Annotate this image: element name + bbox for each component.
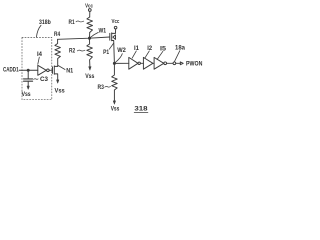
node W1 junction: [88, 37, 90, 39]
leader squiggle R2: [77, 49, 85, 52]
wire 18a to PWON arrow: [176, 62, 181, 64]
leader P1: [109, 43, 113, 49]
wire CADD1 to I4: [19, 69, 38, 71]
label CADD1: [3, 68, 19, 74]
svg-text:P1: P1: [103, 50, 110, 56]
svg-text:I5: I5: [160, 46, 167, 52]
label W2: [117, 48, 126, 54]
inverter I4: [38, 65, 47, 75]
svg-text:I2: I2: [147, 46, 152, 52]
N1 gate bar: [52, 67, 54, 74]
svg-text:I1: I1: [134, 46, 140, 52]
N1 channel bar: [53, 66, 55, 74]
svg-text:Vcc: Vcc: [112, 19, 120, 25]
Vcc terminal (above P1): [112, 19, 120, 25]
label I2: [147, 46, 152, 52]
Vcc terminal (above R1): [85, 4, 93, 10]
svg-text:318b: 318b: [39, 20, 51, 26]
terminal 18a: [173, 62, 176, 65]
P1 drain lead: [112, 41, 115, 64]
resistor R1: [87, 17, 93, 33]
svg-text:Vss: Vss: [111, 107, 120, 113]
svg-text:R4: R4: [54, 32, 61, 38]
svg-text:Vss: Vss: [22, 92, 32, 98]
node C3 tap junction: [27, 69, 29, 71]
label PWON: [186, 61, 202, 67]
label W1: [99, 28, 107, 34]
capacitor C3: [27, 70, 29, 78]
Vss arrow (below R2): [89, 67, 91, 71]
label I5: [160, 46, 167, 52]
dashed box 318b: [22, 37, 52, 99]
P1 gate bar: [109, 33, 111, 40]
svg-text:N1: N1: [66, 69, 74, 75]
svg-text:R3: R3: [98, 85, 105, 91]
svg-text:R2: R2: [69, 48, 76, 54]
label R2: [69, 48, 76, 54]
P1 channel bar: [111, 33, 113, 41]
label 18a: [175, 46, 186, 52]
leader 318b: [36, 25, 41, 37]
wire I5 to terminal 18a: [167, 62, 173, 64]
wire I1 to I2: [140, 62, 143, 64]
leader squiggle R1: [76, 20, 84, 23]
node W2 junction: [113, 62, 115, 64]
leader I2: [145, 51, 150, 58]
N1 drain lead: [54, 65, 57, 67]
svg-text:318: 318: [134, 107, 148, 113]
label I4: [37, 52, 43, 58]
wire I4 out to N1 gate: [49, 69, 52, 71]
Vss arrow (below C3): [27, 86, 29, 89]
leader I5: [157, 51, 163, 59]
svg-text:I4: I4: [37, 52, 43, 58]
label 318 (underlined): [134, 107, 148, 113]
inverter I1: [129, 57, 138, 69]
svg-text:R1: R1: [69, 20, 76, 26]
inverter I2: [143, 57, 153, 69]
leader W1: [90, 32, 98, 37]
P1 arrow: [113, 35, 116, 40]
label R4: [54, 32, 61, 38]
Vss arrow (below R3): [113, 101, 115, 104]
wire Vcc to R1: [89, 11, 91, 17]
inverter I5: [154, 57, 164, 69]
svg-text:W1: W1: [99, 28, 107, 34]
svg-text:18a: 18a: [175, 46, 186, 52]
wire top rail (R4 corner to P1 gate): [58, 37, 110, 39]
N1 source lead: [54, 74, 57, 80]
leader W2: [115, 54, 123, 63]
resistor R3: [112, 63, 118, 101]
leader I1: [132, 51, 136, 58]
resistor R2: [87, 38, 93, 67]
label P1: [103, 50, 110, 56]
label R1: [69, 20, 76, 26]
svg-text:PWON: PWON: [186, 61, 202, 67]
svg-text:W2: W2: [117, 48, 126, 54]
label 318b: [39, 20, 51, 26]
Vss arrow (below N1): [57, 80, 59, 83]
svg-text:Vss: Vss: [85, 74, 95, 80]
P1 source lead: [112, 29, 116, 34]
label C3: [40, 77, 49, 83]
label R3: [98, 85, 105, 91]
leader 18a: [174, 51, 179, 62]
output arrow PWON: [180, 62, 183, 65]
leader N1: [58, 66, 65, 70]
svg-text:Vss: Vss: [55, 88, 66, 94]
leader squiggle R3: [105, 85, 111, 88]
wire W2 node to I1: [114, 62, 128, 64]
svg-text:CADD1: CADD1: [3, 68, 19, 74]
label I1: [134, 46, 140, 52]
label N1: [66, 69, 74, 75]
leader squiggle C3: [34, 78, 39, 81]
leader I4: [38, 57, 40, 64]
resistor R4: [55, 39, 61, 66]
wire R1 bottom to node W1: [89, 33, 91, 39]
svg-text:C3: C3: [40, 77, 49, 83]
wire I2 to I5: [153, 62, 154, 64]
